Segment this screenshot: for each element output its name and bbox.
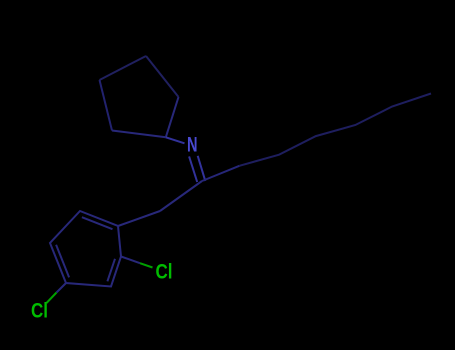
wire C(cyclopentyl)-N bbox=[166, 137, 185, 143]
hexyl chain tail bbox=[239, 94, 431, 166]
cyclopentyl ring edge C4-C5 bbox=[100, 80, 113, 131]
wire C1-CH2 bbox=[160, 181, 202, 211]
wire aryl-Cl (para), chlorine half bbox=[47, 293, 57, 304]
aromatic inner bond R6-R1 bbox=[82, 217, 113, 229]
cyclopentyl ring edge C2-C3 bbox=[146, 56, 179, 97]
cyclopentyl ring edge C1-C2 bbox=[166, 97, 179, 137]
cyclopentyl ring edge C5-C1 bbox=[112, 131, 166, 138]
wire aryl-Cl (ortho), carbon half bbox=[121, 257, 140, 264]
wire CH2-aryl bbox=[118, 211, 160, 226]
svg-text:Cl: Cl bbox=[156, 261, 173, 284]
benzene ring (dichlorophenyl) bbox=[50, 211, 121, 287]
wire aryl-Cl (para), carbon half bbox=[57, 283, 67, 293]
wire aryl-Cl (ortho), chlorine half bbox=[140, 263, 153, 267]
aromatic inner bond R4-R5 bbox=[56, 245, 69, 278]
svg-text:Cl: Cl bbox=[31, 300, 48, 323]
hexyl chain bbox=[202, 166, 239, 181]
imine C=N double bond bbox=[189, 156, 197, 182]
aromatic inner bond R2-R3 bbox=[107, 259, 115, 282]
svg-text:N: N bbox=[187, 134, 198, 157]
cyclopentyl ring edge C3-C4 bbox=[100, 56, 147, 80]
